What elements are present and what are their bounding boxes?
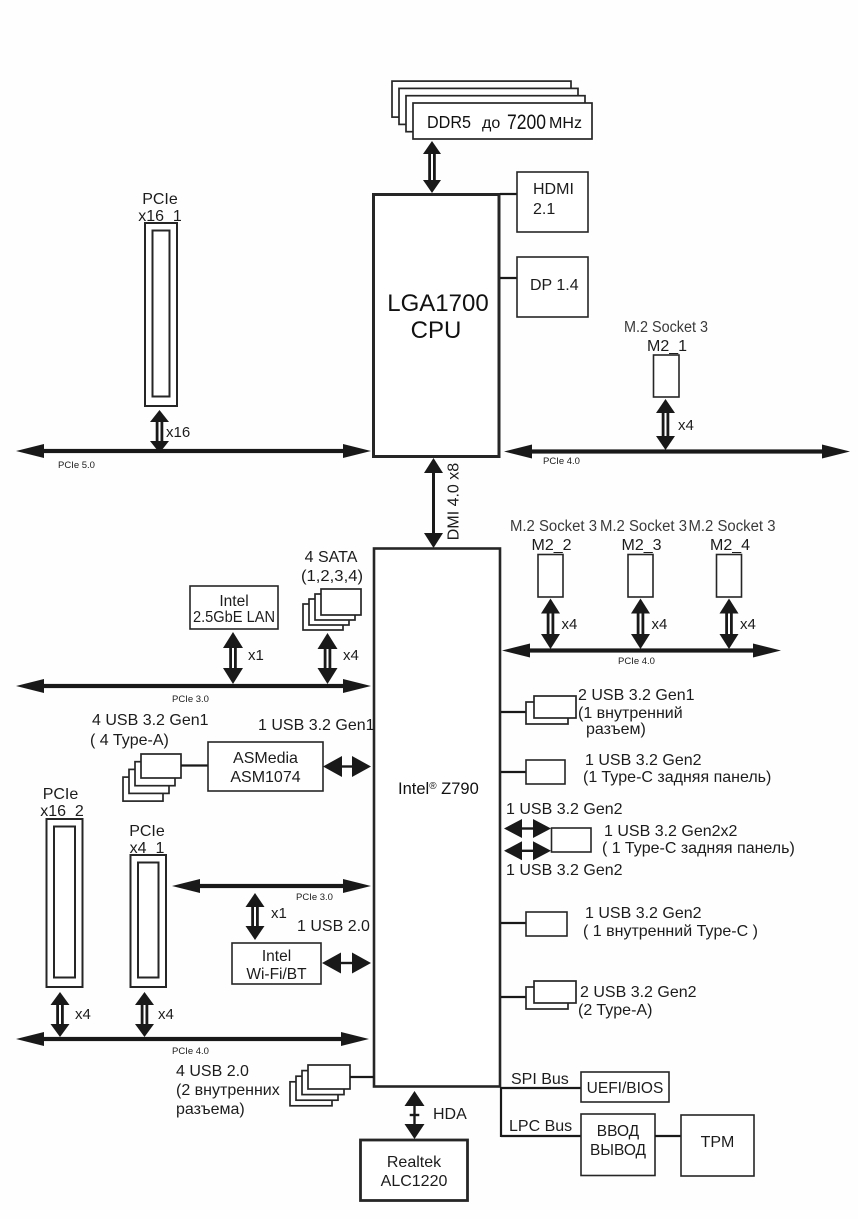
- arrow x4 M2_2: [541, 599, 560, 614]
- svg-text:DP 1.4: DP 1.4: [530, 277, 579, 294]
- svg-text:M.2 Socket 3: M.2 Socket 3: [600, 518, 687, 535]
- svg-text:LPC Bus: LPC Bus: [509, 1118, 572, 1135]
- arrow DDR5-CPU: [423, 141, 441, 154]
- wire Z790-USB Gen2 internal: [501, 922, 526, 924]
- svg-text:LGA1700: LGA1700: [387, 290, 488, 317]
- USB 3.2 Gen1 internal stack: [526, 702, 568, 724]
- svg-text:1 USB 3.2 Gen2x2: 1 USB 3.2 Gen2x2: [604, 823, 738, 840]
- svg-text:разъема): разъема): [176, 1101, 245, 1118]
- svg-text:ВВОД: ВВОД: [597, 1123, 640, 1140]
- M.2 socket M2_3: [628, 555, 653, 598]
- svg-text:(1 Type-C задняя панель): (1 Type-C задняя панель): [583, 769, 771, 786]
- arrow x4 SATA: [318, 633, 338, 649]
- PCIe x16_1 slot: [145, 223, 177, 406]
- svg-text:x16_2: x16_2: [40, 803, 84, 820]
- svg-text:1 USB 3.2 Gen1: 1 USB 3.2 Gen1: [258, 717, 375, 734]
- svg-text:(2 Type-A): (2 Type-A): [578, 1002, 652, 1019]
- arrow Gen2x2 lower: [504, 841, 522, 860]
- svg-text:2.5GbE LAN: 2.5GbE LAN: [193, 609, 275, 626]
- svg-text:1 USB 3.2 Gen2: 1 USB 3.2 Gen2: [585, 905, 702, 922]
- svg-text:M.2 Socket 3: M.2 Socket 3: [689, 518, 776, 535]
- Intel 2.5GbE LAN box: [190, 586, 278, 629]
- svg-text:Intel: Intel: [262, 948, 291, 965]
- svg-text:M.2 Socket 3: M.2 Socket 3: [510, 518, 597, 535]
- USB 3.2 Gen2x2 port: [552, 828, 592, 852]
- svg-text:TPM: TPM: [701, 1134, 735, 1151]
- wire IO-TPM: [655, 1135, 681, 1137]
- svg-text:( 1 внутренний Type-C ): ( 1 внутренний Type-C ): [583, 923, 758, 940]
- svg-text:2 USB 3.2 Gen2: 2 USB 3.2 Gen2: [580, 984, 697, 1001]
- USB 3.2 Gen2 rear port: [526, 760, 565, 784]
- svg-text:7200: 7200: [507, 111, 546, 134]
- svg-text:1 USB 3.2 Gen2: 1 USB 3.2 Gen2: [506, 862, 623, 879]
- ASMedia ASM1074 box: [208, 742, 323, 791]
- svg-text:PCIe 4.0: PCIe 4.0: [618, 656, 655, 667]
- USB 2.0 port stack: [290, 1082, 332, 1106]
- arrow x4 M2_1: [656, 399, 675, 413]
- arrow x4 M2_3: [631, 599, 650, 614]
- arrow x1 WiFi: [246, 893, 265, 907]
- Realtek ALC1220 box: [361, 1140, 468, 1201]
- svg-text:PCIe: PCIe: [129, 823, 165, 840]
- svg-text:PCIe 3.0: PCIe 3.0: [172, 694, 209, 705]
- DP 1.4 box: [517, 257, 588, 317]
- svg-text:PCIe 5.0: PCIe 5.0: [58, 460, 95, 471]
- svg-text:x4: x4: [652, 616, 668, 633]
- svg-text:DDR5: DDR5: [427, 112, 471, 132]
- svg-text:4 USB 3.2 Gen1: 4 USB 3.2 Gen1: [92, 712, 209, 729]
- svg-text:M2_3: M2_3: [621, 537, 661, 554]
- M.2 socket M2_1: [654, 355, 680, 397]
- svg-text:x4: x4: [158, 1006, 174, 1023]
- IO box VVOD/VYVOD: [581, 1114, 655, 1176]
- bus PCIe 4.0 mid right: [528, 648, 755, 652]
- bus PCIe 5.0: [42, 449, 345, 453]
- PCIe x16_2 slot: [47, 819, 83, 987]
- svg-text:1 USB 2.0: 1 USB 2.0: [297, 918, 370, 935]
- wire LPC bus: [501, 1135, 581, 1137]
- wire Z790-USB Gen2 TypeA: [501, 996, 526, 998]
- Intel Wi-Fi/BT box: [232, 943, 321, 984]
- USB 3.2 Gen2 Type-A stack: [526, 987, 568, 1009]
- arrow x16: [150, 410, 169, 422]
- svg-text:1 USB 3.2 Gen2: 1 USB 3.2 Gen2: [506, 801, 623, 818]
- svg-text:Intel: Intel: [219, 593, 248, 610]
- svg-text:разъем): разъем): [586, 721, 646, 738]
- wire LPC vertical: [500, 1087, 502, 1137]
- chipset box Intel Z790: [374, 549, 500, 1087]
- svg-text:MHz: MHz: [549, 115, 582, 132]
- svg-text:Intel® Z790: Intel® Z790: [398, 780, 479, 798]
- PCIe x4_1 slot: [131, 855, 167, 987]
- wire USB2-Z790: [350, 1076, 374, 1078]
- wire SPI bus: [501, 1087, 581, 1089]
- svg-text:PCIe: PCIe: [142, 191, 178, 208]
- svg-text:M.2 Socket 3: M.2 Socket 3: [624, 319, 708, 336]
- arrow DMI CPU-Z790: [424, 458, 443, 473]
- arrow ASMedia-Z790: [323, 756, 342, 777]
- svg-text:Wi-Fi/BT: Wi-Fi/BT: [246, 966, 307, 983]
- svg-text:PCIe 3.0: PCIe 3.0: [296, 892, 333, 903]
- bus PCIe 4.0 bottom: [42, 1037, 343, 1041]
- svg-text:DMI 4.0 x8: DMI 4.0 x8: [446, 463, 463, 540]
- svg-text:M2_2: M2_2: [531, 537, 571, 554]
- svg-text:2.1: 2.1: [533, 201, 555, 218]
- M.2 socket M2_2: [538, 555, 563, 598]
- svg-text:UEFI/BIOS: UEFI/BIOS: [587, 1080, 664, 1097]
- DDR5 memory module stack: [392, 81, 571, 117]
- svg-text:2 USB 3.2 Gen1: 2 USB 3.2 Gen1: [578, 687, 695, 704]
- wire Z790-USB Gen1 stack: [501, 711, 526, 713]
- SATA port stack: [303, 604, 343, 630]
- svg-text:(1 внутренний: (1 внутренний: [578, 705, 683, 722]
- svg-text:x4: x4: [343, 647, 359, 664]
- svg-text:(2 внутренних: (2 внутренних: [176, 1082, 280, 1099]
- HDMI 2.1 box: [517, 172, 588, 232]
- svg-text:M2_4: M2_4: [710, 537, 750, 554]
- svg-text:x1: x1: [248, 647, 264, 664]
- wire stack-ASMedia: [181, 764, 208, 766]
- svg-text:Realtek: Realtek: [387, 1154, 442, 1171]
- wire CPU-HDMI: [500, 193, 517, 195]
- svg-text:ALC1220: ALC1220: [381, 1173, 448, 1190]
- svg-text:( 4 Type-A): ( 4 Type-A): [90, 732, 169, 749]
- svg-text:ASM1074: ASM1074: [230, 769, 300, 786]
- svg-text:CPU: CPU: [411, 317, 462, 344]
- svg-text:4 USB 2.0: 4 USB 2.0: [176, 1063, 249, 1080]
- arrow x4 M2_4: [720, 599, 739, 614]
- svg-text:x4: x4: [562, 616, 578, 633]
- svg-text:x1: x1: [271, 905, 287, 922]
- svg-text:x4: x4: [678, 417, 694, 434]
- svg-text:PCIe: PCIe: [43, 786, 79, 803]
- svg-text:HDA: HDA: [433, 1106, 467, 1123]
- svg-text:HDMI: HDMI: [533, 181, 574, 198]
- svg-text:PCIe 4.0: PCIe 4.0: [172, 1046, 209, 1057]
- TPM box: [681, 1115, 754, 1176]
- arrow HDA: [405, 1091, 425, 1106]
- svg-text:x16: x16: [166, 424, 190, 441]
- svg-text:ASMedia: ASMedia: [233, 750, 298, 767]
- svg-text:4 SATA: 4 SATA: [305, 549, 358, 566]
- M.2 socket M2_4: [717, 555, 742, 598]
- bus PCIe 3.0 left: [42, 684, 345, 688]
- UEFI/BIOS box: [581, 1072, 669, 1102]
- svg-text:PCIe 4.0: PCIe 4.0: [543, 456, 580, 467]
- bus PCIe 4.0 top right: [530, 449, 824, 453]
- USB Type-A port stack: [123, 777, 163, 801]
- svg-text:1 USB 3.2 Gen2: 1 USB 3.2 Gen2: [585, 752, 702, 769]
- USB 3.2 Gen2 internal port: [526, 912, 567, 936]
- svg-text:SPI Bus: SPI Bus: [511, 1071, 569, 1088]
- arrow WiFi-Z790: [322, 953, 341, 974]
- svg-text:M2_1: M2_1: [647, 338, 687, 355]
- svg-text:( 1 Type-C задняя панель): ( 1 Type-C задняя панель): [602, 840, 795, 857]
- arrow x4 x16_2: [51, 992, 70, 1005]
- svg-text:x4: x4: [75, 1006, 91, 1023]
- wire CPU-DP: [500, 277, 517, 279]
- CPU box LGA1700: [374, 195, 500, 457]
- arrow Gen2x2 upper: [504, 819, 522, 838]
- arrow x4 x4_1: [135, 992, 154, 1005]
- bus PCIe 3.0 lower: [198, 884, 345, 888]
- svg-text:до: до: [482, 115, 500, 132]
- svg-text:x4: x4: [740, 616, 756, 633]
- svg-text:(1,2,3,4): (1,2,3,4): [301, 568, 363, 585]
- wire Z790-USB Gen2 rear: [501, 771, 526, 773]
- svg-text:ВЫВОД: ВЫВОД: [590, 1142, 647, 1159]
- arrow x1 LAN: [223, 632, 243, 648]
